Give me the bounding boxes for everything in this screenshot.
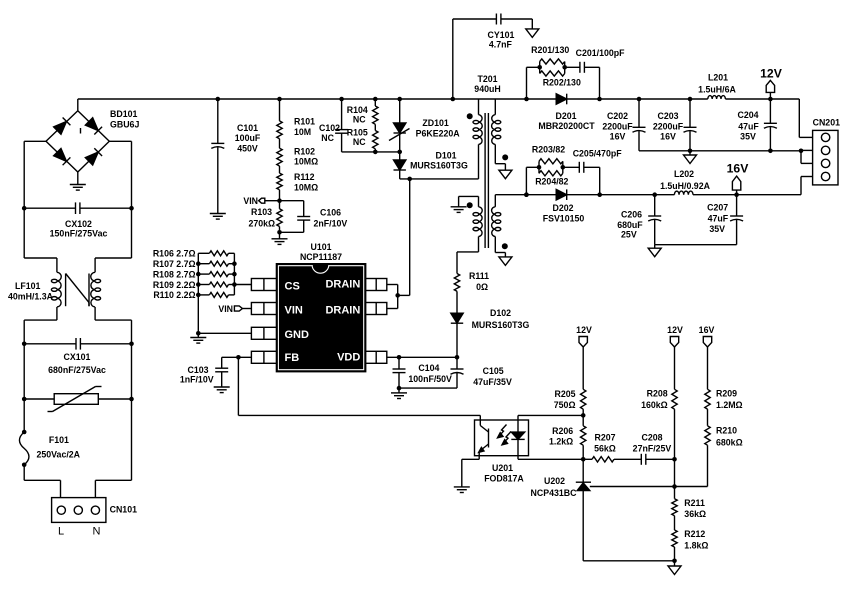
wire 12V return rail [639,149,813,164]
svg-text:1.8kΩ: 1.8kΩ [684,541,708,551]
U101 pin labels [285,279,361,364]
svg-text:C203: C203 [657,111,678,121]
supply arrow 12V a [579,337,587,390]
wire snubber2 left [524,167,539,197]
wire primary to D101 [400,177,479,182]
resistor R207 [583,457,641,462]
svg-text:C102: C102 [319,123,340,133]
label BD101 [110,109,139,130]
transformer T201 core [485,113,488,248]
optocoupler U201 LED [511,415,524,459]
capacitor C203 [684,99,697,151]
svg-text:2200uF: 2200uF [653,122,684,132]
svg-text:1.2kΩ: 1.2kΩ [549,437,573,447]
resistor R106 [198,251,234,256]
capacitor C201 [565,62,600,99]
svg-text:C201/100pF: C201/100pF [576,48,626,58]
op-amp U101 body [276,264,365,372]
label R111 [469,271,489,292]
svg-text:CX101: CX101 [64,352,91,362]
wire GND pin [198,333,251,337]
label ZD101 [416,118,461,139]
svg-text:LF101: LF101 [15,281,41,291]
svg-text:C101: C101 [237,123,258,133]
resistor R208 [672,389,677,459]
wire opto emitter ground [462,459,479,487]
svg-text:GND: GND [285,329,310,341]
capacitor C204 [764,99,777,151]
svg-text:D201: D201 [555,111,576,121]
capacitor C101 [210,99,226,219]
label R206 [549,426,573,447]
label L202 [660,169,711,191]
label CX101 [48,352,106,375]
svg-text:NC: NC [353,115,366,125]
label 12V output [760,67,783,81]
svg-text:R202/130: R202/130 [543,78,581,88]
svg-text:1.2MΩ: 1.2MΩ [716,400,743,410]
label R210 [716,426,743,448]
svg-text:16V: 16V [660,132,676,142]
svg-text:MURS160T3G: MURS160T3G [410,161,468,171]
label R109 [153,280,196,290]
label C207 [707,203,729,234]
svg-text:U202: U202 [544,476,565,486]
label R101 [294,116,315,137]
resistor R203 [537,159,563,174]
resistor R103 [277,201,282,233]
fuse F101 [19,430,29,467]
capacitor C103 [214,357,230,392]
ground 12V return [684,151,697,164]
resistor R107 [198,261,234,266]
svg-text:R102: R102 [294,147,315,157]
svg-text:100nF/50V: 100nF/50V [408,374,452,384]
svg-text:R112: R112 [294,172,315,182]
svg-text:10MΩ: 10MΩ [294,183,318,193]
label L201 [698,72,736,94]
wire bottom return [583,547,677,563]
label R207 [594,432,616,453]
capacitor CY101 [453,14,533,100]
label R104 [347,105,368,125]
label D201 [538,111,595,131]
wire FB [222,355,481,415]
svg-text:CX102: CX102 [65,219,92,229]
ground secondary 1 [499,170,512,179]
svg-text:U101: U101 [310,242,331,252]
svg-text:NCP431BC: NCP431BC [531,488,578,498]
svg-text:C105: C105 [483,366,504,376]
resistor R206 [581,415,586,461]
label N [93,526,101,538]
ground U201 [454,487,470,493]
wire AC live (left) [24,141,60,497]
label R203 [532,145,565,155]
svg-text:R208: R208 [647,389,668,399]
svg-text:47uF: 47uF [738,122,759,132]
wire top HV rail [78,99,813,137]
svg-text:R103: R103 [251,207,272,217]
svg-text:R206: R206 [552,426,573,436]
svg-text:750Ω: 750Ω [554,400,576,410]
svg-text:NC: NC [353,137,366,147]
capacitor CX102 [22,202,134,214]
svg-text:2nF/10V: 2nF/10V [314,219,348,229]
svg-text:680nF/275Vac: 680nF/275Vac [48,365,106,375]
capacitor C105 [399,357,464,388]
svg-text:35V: 35V [709,224,725,234]
label C106 [314,208,348,229]
wire REF [590,459,708,489]
label R204 [535,176,568,186]
label U202 [531,476,578,498]
label C104 [408,363,452,384]
svg-text:R108 2.7Ω: R108 2.7Ω [153,269,196,279]
svg-text:CN101: CN101 [110,505,137,515]
resistor R104 [373,99,378,124]
wire opto LED cathode [518,458,583,460]
svg-text:NCP11187: NCP11187 [300,252,342,262]
label U101 [300,242,342,262]
inductor LF101 [51,272,100,307]
svg-text:R105: R105 [347,128,368,138]
svg-text:FB: FB [285,352,300,364]
ground CY101 [526,29,539,38]
svg-text:10M: 10M [294,127,311,137]
label R205 [554,389,576,410]
wire AC neutral (right) [95,141,131,497]
svg-text:R210: R210 [716,426,737,436]
node junction dots on top rail [216,97,773,102]
resistor R204 [539,161,565,176]
svg-text:100uF: 100uF [235,133,261,143]
ground secondary 2 [499,257,512,266]
label C203 [653,111,684,142]
svg-text:L201: L201 [708,72,728,82]
resistor R211 [672,487,677,516]
svg-text:25V: 25V [621,230,637,240]
svg-text:VIN: VIN [218,304,233,314]
svg-text:R109 2.2Ω: R109 2.2Ω [153,280,196,290]
label D102 [472,308,530,330]
svg-text:10MΩ: 10MΩ [294,157,318,167]
resistor R210 [705,426,710,487]
svg-text:P6KE220A: P6KE220A [416,129,461,139]
label LF101 [8,281,54,302]
svg-text:BD101: BD101 [110,109,137,119]
label U201 [484,463,524,484]
label R1010 [153,290,195,300]
svg-text:35V: 35V [740,132,756,142]
svg-text:47uF/35V: 47uF/35V [473,377,512,387]
label CN101 [110,505,137,515]
label R103 [248,207,275,229]
diode D101 [394,152,406,179]
label R105 [347,128,368,148]
wire opto LED anode [518,414,583,416]
svg-text:C207: C207 [707,203,728,213]
svg-text:R204/82: R204/82 [535,176,568,186]
svg-text:940uH: 940uH [474,84,500,94]
optocoupler U201 body [475,420,529,456]
capacitor C208 [641,454,677,465]
label R107 [153,259,196,269]
svg-text:R104: R104 [347,105,368,115]
svg-text:GBU6J: GBU6J [110,120,139,130]
supply arrow 12V b [670,337,678,390]
svg-text:R107 2.7Ω: R107 2.7Ω [153,259,196,269]
label D202 [543,203,585,224]
svg-text:R211: R211 [684,498,705,508]
capacitor C104 [391,357,407,398]
label 16V c [699,325,715,335]
node VIN tag [259,198,280,203]
wire ladder left bus [196,253,201,335]
label L [58,526,64,538]
label 16V output [727,162,750,176]
svg-text:1nF/10V: 1nF/10V [180,375,214,385]
svg-text:C206: C206 [621,210,642,220]
label C105 [473,366,512,387]
label CX102 [50,219,108,239]
svg-text:C103: C103 [187,365,208,375]
label C201 [576,48,626,58]
label C204 [737,110,759,142]
svg-text:CN201: CN201 [813,118,840,128]
label C102 [319,123,340,143]
wire snubber bottom [373,150,402,155]
svg-text:D202: D202 [552,203,573,213]
svg-text:MURS160T3G: MURS160T3G [472,320,530,330]
U101 pins [251,279,386,364]
resistor R111 [454,252,459,291]
supply arrow 16V c [703,337,711,390]
wire 16V rail [495,177,812,198]
svg-text:N: N [93,526,101,538]
resistor R209 [705,389,710,426]
resistor R108 [198,272,234,277]
capacitor CX101 [22,338,134,350]
label C101 [235,123,261,153]
svg-text:C104: C104 [418,363,439,373]
svg-text:C208: C208 [641,432,662,442]
wire to VIN node [277,190,282,203]
svg-text:T201: T201 [477,74,497,84]
label C103 [180,365,214,385]
resistor R212 [672,516,677,547]
label R112 [294,172,318,193]
svg-text:NC: NC [321,133,334,143]
inductor L202 [674,191,693,195]
svg-text:VIN: VIN [285,304,303,316]
svg-text:R106 2.7Ω: R106 2.7Ω [153,249,196,259]
label T201 [474,74,500,94]
svg-text:12V: 12V [760,67,783,81]
svg-text:1.5uH/0.92A: 1.5uH/0.92A [660,181,711,191]
svg-text:16V: 16V [727,162,750,176]
svg-text:47uF: 47uF [708,214,729,224]
svg-text:680kΩ: 680kΩ [716,438,743,448]
svg-text:1.5uH/6A: 1.5uH/6A [698,84,736,94]
resistor R112 [277,166,282,190]
svg-text:0Ω: 0Ω [476,282,488,292]
resistor R101 [277,99,282,139]
svg-text:C205/470pF: C205/470pF [573,149,623,159]
capacitor C206 [648,195,661,245]
wire CS [234,284,251,286]
transformer T201 secondary 2 winding [492,195,508,257]
label R202 [543,78,581,88]
ground C206 [648,245,661,257]
svg-text:R111: R111 [469,271,489,281]
ground ladder [190,338,206,344]
svg-text:FSV10150: FSV10150 [543,214,585,224]
svg-text:270kΩ: 270kΩ [248,219,275,229]
svg-text:16V: 16V [699,325,715,335]
svg-text:VIN: VIN [243,196,258,206]
transformer T201 secondary 1 winding [492,99,509,170]
svg-text:C106: C106 [320,208,341,218]
label CN201 [813,118,840,128]
capacitor C205 [563,162,600,195]
ground aux winding [451,207,467,213]
svg-text:2200uF: 2200uF [602,122,633,132]
capacitor C106 [277,201,310,235]
connector CN201 [813,130,838,185]
wire ladder right bus [232,253,237,295]
supply arrow 16V output [732,176,740,195]
svg-text:MBR20200CT: MBR20200CT [538,121,595,131]
svg-text:U201: U201 [492,463,513,473]
svg-text:R212: R212 [684,529,705,539]
label C208 [633,432,672,453]
svg-text:CS: CS [285,281,300,293]
label R208 [641,389,668,411]
svg-text:160kΩ: 160kΩ [641,400,668,410]
resistor R105 [373,124,378,152]
shunt regulator U202 [576,459,591,561]
optocoupler U201 light arrows [498,425,512,445]
svg-text:R205: R205 [554,389,575,399]
wire snubber1 left [527,67,540,99]
svg-text:R209: R209 [716,389,737,399]
svg-text:12V: 12V [576,325,592,335]
label R102 [294,147,318,167]
wire drain [387,179,410,309]
label R212 [684,529,708,551]
svg-text:4.7nF: 4.7nF [489,39,513,49]
resistor R109 [198,282,234,287]
inductor L201 [708,96,726,99]
label CY101 [488,30,515,49]
diode D102 [451,291,463,357]
label D101 [410,151,468,171]
svg-text:F101: F101 [49,435,69,445]
svg-text:150nF/275Vac: 150nF/275Vac [50,229,108,239]
svg-text:250Vac/2A: 250Vac/2A [37,450,81,460]
ground R103 C106 [272,232,288,244]
node VIN tag U101 [234,306,251,311]
label VIN U101 [218,304,233,314]
resistor R202 [540,62,567,77]
svg-text:R207: R207 [594,432,615,442]
label R209 [716,389,743,411]
diode D201 [556,94,567,105]
svg-text:16V: 16V [610,132,626,142]
label R106 [153,249,196,259]
svg-text:680uF: 680uF [617,220,643,230]
svg-text:ZD101: ZD101 [422,118,449,128]
svg-text:L: L [58,526,64,538]
svg-text:DRAIN: DRAIN [325,304,360,316]
label R211 [684,498,706,519]
capacitor C207 [730,195,743,245]
svg-text:450V: 450V [237,143,258,153]
svg-text:56kΩ: 56kΩ [594,443,616,453]
svg-text:FOD817A: FOD817A [484,474,524,484]
svg-text:DRAIN: DRAIN [325,279,360,291]
svg-text:C204: C204 [737,110,758,120]
svg-text:VDD: VDD [337,351,360,363]
label C206 [617,210,643,240]
svg-text:40mH/1.3A: 40mH/1.3A [8,292,54,302]
zener ZD101 [389,99,410,152]
connector CN101 [52,498,106,523]
transformer T201 aux winding [457,196,482,252]
label R108 [153,269,196,279]
ground bridge [70,172,86,190]
svg-text:12V: 12V [667,325,683,335]
label 12V a [576,325,592,335]
resistor R1010 [198,292,234,297]
ground bottom [668,561,681,575]
label C205 [573,149,623,159]
label F101 [37,435,81,460]
label R201 [531,45,569,55]
wire VDD [387,355,460,360]
capacitor C102 [335,99,375,152]
resistor R102 [277,139,282,166]
svg-text:27nF/25V: 27nF/25V [633,443,672,453]
resistor R205 [581,389,586,417]
diode D202 [556,189,567,200]
label VIN [243,196,258,206]
wire C206 C207 return [655,244,737,246]
svg-text:R110 2.2Ω: R110 2.2Ω [153,290,195,300]
capacitor C202 [633,99,646,151]
bridge rectifier BD101 [24,99,131,172]
svg-text:D101: D101 [436,151,457,161]
transformer T201 primary winding [467,99,483,179]
resistor R201 [537,59,564,74]
svg-text:R201/130: R201/130 [531,45,569,55]
svg-text:C202: C202 [607,111,628,121]
svg-text:R101: R101 [294,116,315,126]
varistor RV101 [22,387,134,412]
svg-text:D102: D102 [490,308,511,318]
svg-text:R203/82: R203/82 [532,145,565,155]
svg-text:L202: L202 [674,169,694,179]
svg-text:36kΩ: 36kΩ [684,509,706,519]
optocoupler U201 transistor [479,415,489,459]
label 12V b [667,325,683,335]
supply arrow 12V output [766,80,774,99]
label C202 [602,111,633,142]
